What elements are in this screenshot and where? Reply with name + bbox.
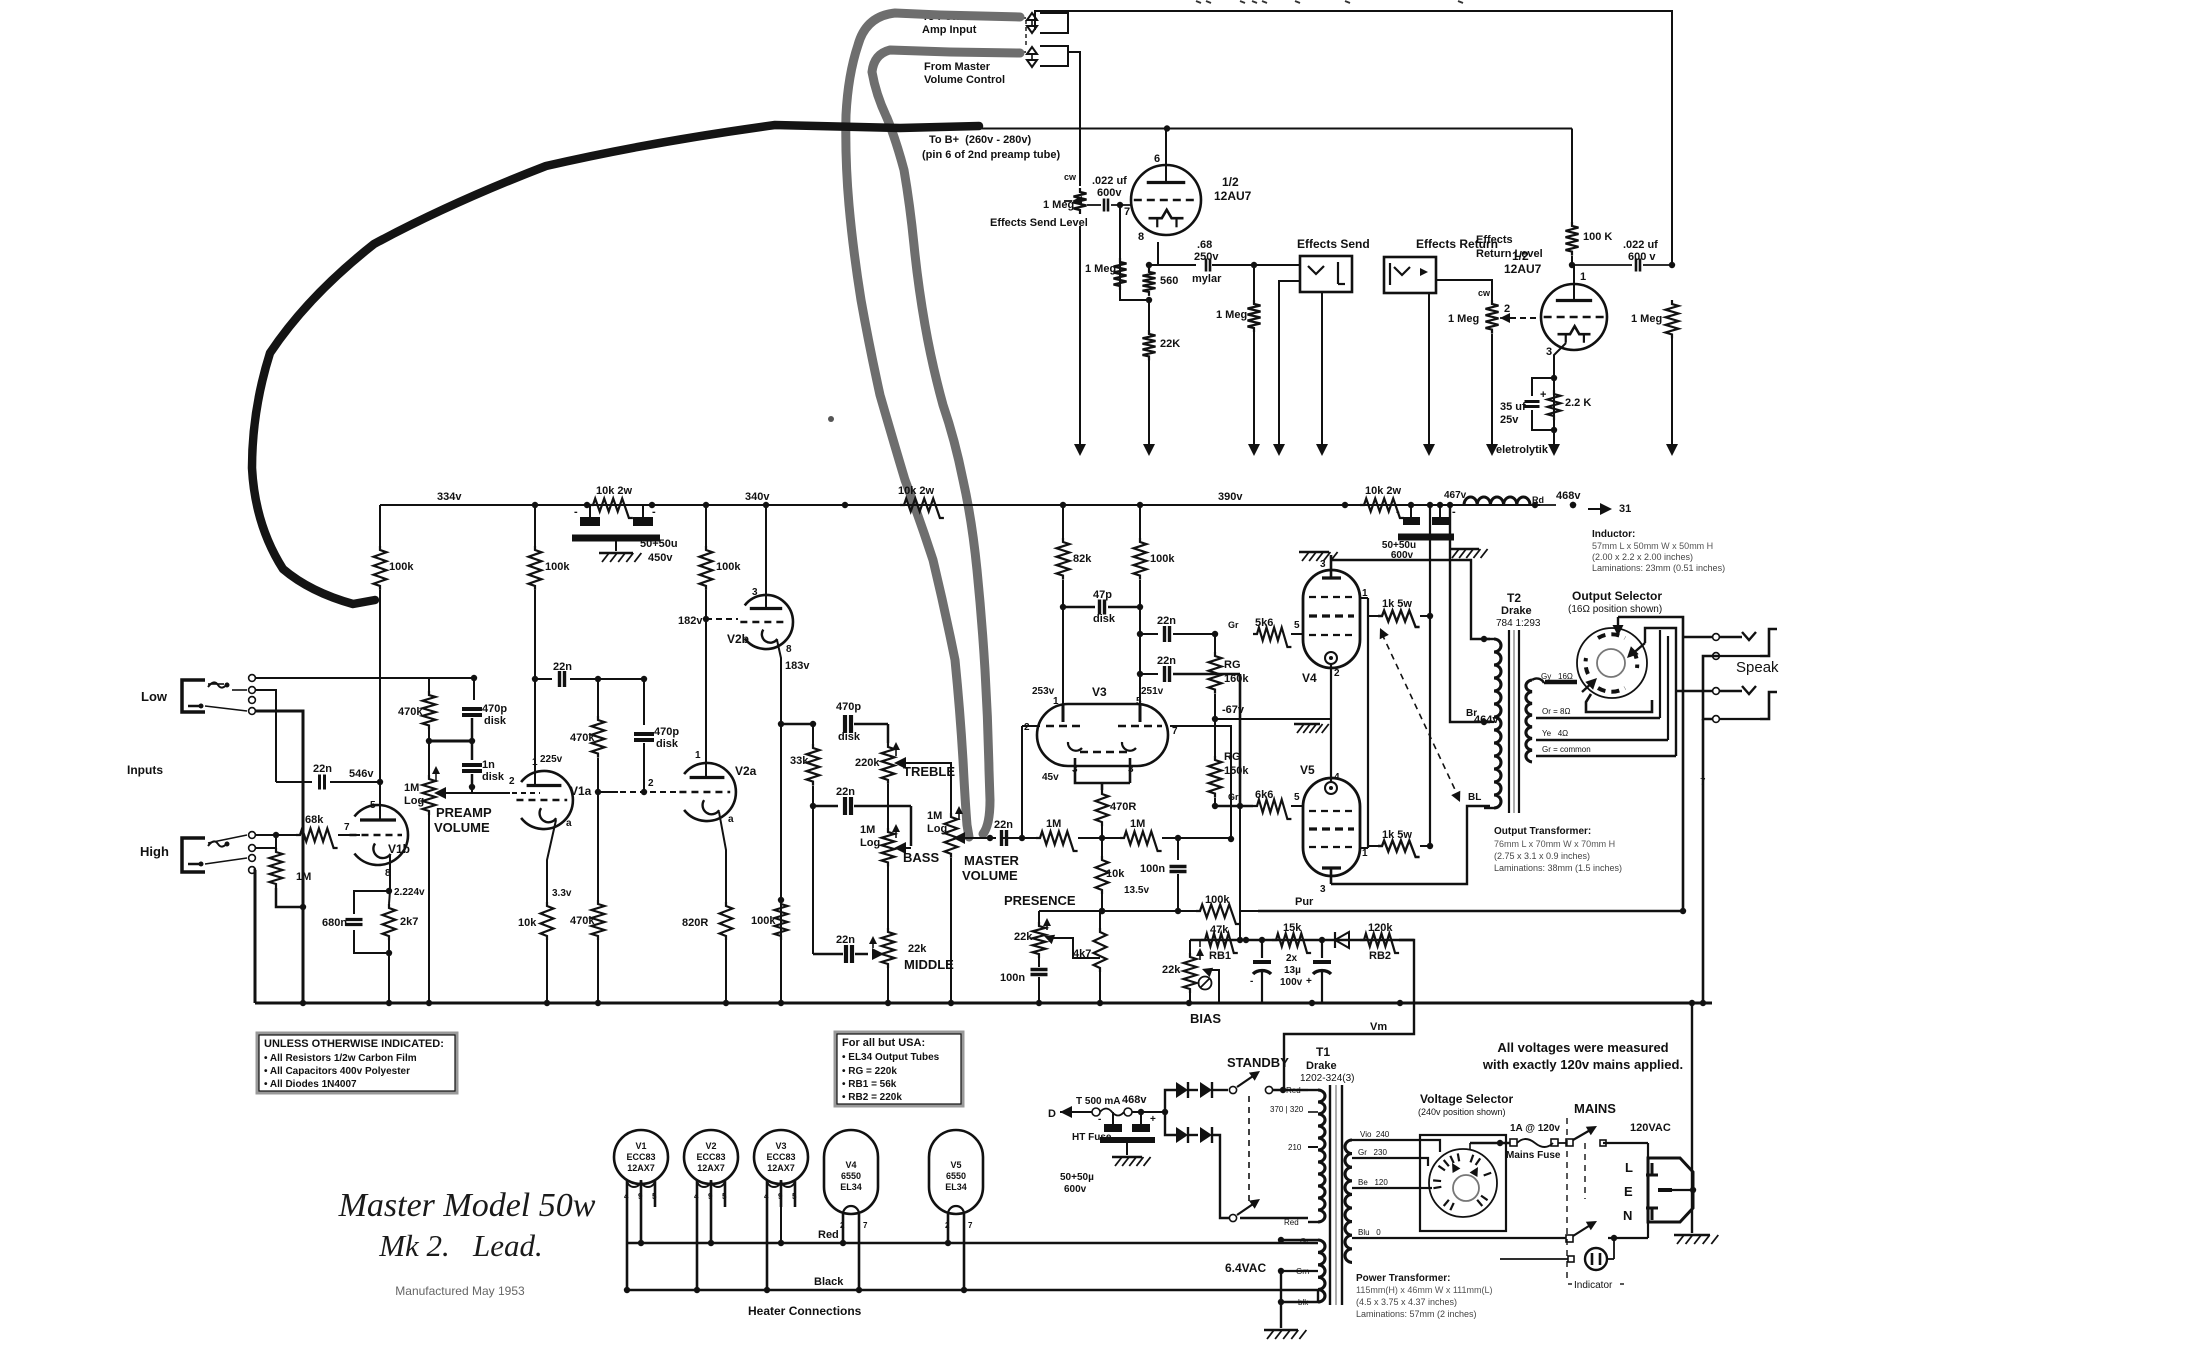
svg-text:.022 uf: .022 uf [1092,175,1127,187]
svg-text:4: 4 [694,1192,699,1201]
switch mains neutral [1530,1221,1648,1242]
wire V3 grid-b [1170,726,1234,842]
svg-text:4: 4 [1334,772,1340,783]
wire B+ rail 334v-467v [380,502,1576,508]
svg-text:T 500 mA: T 500 mA [1076,1096,1120,1107]
svg-text:(16Ω position shown): (16Ω position shown) [1568,604,1662,615]
svg-text:7: 7 [863,1221,868,1230]
resistor 100k tail [751,897,788,940]
svg-text:Laminations: 23mm (0.51 inches: Laminations: 23mm (0.51 inches) [1592,563,1725,573]
svg-text:RG: RG [1224,659,1241,671]
svg-text:Speak: Speak [1736,659,1779,676]
svg-text:a: a [566,818,572,829]
svg-text:PRESENCE: PRESENCE [1004,893,1076,908]
svg-text:1M: 1M [927,810,942,822]
svg-text:2: 2 [1024,722,1030,733]
svg-text:100v: 100v [1280,977,1303,988]
resistor 6k6 grid stopper V5 [1228,620,1303,819]
svg-text:120VAC: 120VAC [1630,1122,1671,1134]
capacitor 22n middle [813,806,884,963]
svg-text:Red: Red [1286,1086,1301,1095]
svg-text:13.5v: 13.5v [1124,885,1149,896]
capacitor 47p disk [1063,589,1140,625]
svg-text:V1a: V1a [570,784,592,798]
svg-text:10k 2w: 10k 2w [898,485,935,497]
svg-text:47p: 47p [1093,589,1112,601]
wire selector taps [1378,1140,1530,1238]
jack J-send (to power amp input) [981,13,1068,33]
svg-text:• All Resistors 1/2w Carbon Fi: • All Resistors 1/2w Carbon Film [264,1053,417,1064]
transformer T1 HT winding [1270,1086,1325,1227]
diode bias [1335,932,1360,948]
svg-text:Master Model 50w: Master Model 50w [338,1187,596,1224]
wire bias feed vertical [1237,806,1243,943]
svg-text:3: 3 [1546,346,1552,358]
choke inductor [1444,490,1631,515]
capacitor 100n PI [1124,838,1187,911]
label 120VAC [1630,1122,1671,1134]
label MAINS [1574,1101,1616,1116]
capacitor 470p disk (bright) [429,675,507,744]
tube basing V3 ECC83 [754,1130,808,1293]
pot MASTER VOLUME 1M Log [927,806,1020,1003]
svg-text:Laminations: 38mm (1.5 inches): Laminations: 38mm (1.5 inches) [1494,863,1622,873]
wire heater CT to ground [1264,1271,1306,1339]
svg-text:RG: RG [1224,751,1241,763]
svg-text:Be 120: Be 120 [1358,1178,1388,1187]
resistor 5k6 grid stopper V4 [1253,617,1303,647]
svg-text:470p: 470p [482,703,507,715]
pot BIAS 22k [1162,940,1221,1026]
svg-text:Gr = common: Gr = common [1542,745,1591,754]
svg-text:12AX7: 12AX7 [767,1163,795,1173]
label From Master Volume Control [924,61,1005,86]
wire grid divider 1 Meg [1085,205,1152,303]
output transformer spec text [1494,826,1622,873]
stray dot [828,416,834,422]
svg-text:22n: 22n [313,763,332,775]
fuse HT T500mA [1072,1094,1168,1143]
pot Effects Return Level 1 Meg [1448,288,1510,456]
resistor 1 Meg (output) [1631,300,1679,456]
svg-text:10k: 10k [1106,868,1125,880]
transformer T1 mains winding [1345,1130,1440,1262]
pot PRESENCE 22k [1014,911,1100,958]
svg-text:1 Meg: 1 Meg [1448,313,1479,325]
svg-text:468v: 468v [1122,1094,1147,1106]
svg-text:VOLUME: VOLUME [434,820,490,835]
svg-text:Inductor:: Inductor: [1592,529,1635,540]
svg-text:5k6: 5k6 [1255,617,1273,629]
svg-text:10k 2w: 10k 2w [596,485,633,497]
svg-text:470p: 470p [654,726,679,738]
wire U1b cathode [1551,343,1566,433]
svg-text:50+50u: 50+50u [640,538,678,550]
transformer T1 core [1330,1085,1342,1305]
svg-text:V3: V3 [775,1141,786,1151]
svg-text:• All Capacitors 400v Polyeste: • All Capacitors 400v Polyester [264,1066,410,1077]
svg-text:Inputs: Inputs [127,763,163,777]
svg-text:ECC83: ECC83 [766,1152,795,1162]
svg-text:BIAS: BIAS [1190,1011,1221,1026]
svg-text:-: - [1250,976,1253,987]
svg-text:22K: 22K [1160,338,1180,350]
svg-text:1202-324(3): 1202-324(3) [1300,1073,1354,1084]
svg-text:Indicator: Indicator [1574,1280,1613,1291]
resistor 470R [1096,790,1137,841]
svg-text:disk: disk [838,731,861,743]
svg-text:Gy: Gy [1541,672,1551,681]
svg-text:5: 5 [722,1192,727,1201]
svg-text:2x: 2x [1286,953,1298,964]
wire low to 22n [256,690,276,782]
svg-text:2: 2 [1504,303,1510,315]
svg-text:470p: 470p [836,701,861,713]
svg-text:47k: 47k [1210,924,1229,936]
transformer T1 heater winding [1278,1237,1325,1307]
svg-text:PREAMP: PREAMP [436,805,492,820]
svg-text:L: L [1625,1160,1633,1175]
svg-text:9: 9 [638,1192,643,1201]
tube U1a half 12AU7 (effects send driver) [1131,129,1252,244]
wire V2b cathode to tone stack [777,640,810,1003]
resistor 1M PI bias 1 [1022,818,1102,851]
svg-text:T2: T2 [1507,591,1521,605]
svg-text:Gr: Gr [1228,792,1239,802]
svg-text:5: 5 [792,1192,797,1201]
svg-text:Vm: Vm [1370,1021,1387,1033]
svg-text:V2b: V2b [727,632,749,646]
neon indicator [1500,1240,1624,1291]
svg-text:• RB1 = 56k: • RB1 = 56k [842,1079,897,1090]
resistor 100k V1a plate [529,505,571,787]
power transformer spec text [1356,1273,1493,1319]
transformer T1 label [1300,1045,1354,1084]
svg-text:100k: 100k [545,561,570,573]
svg-text:600v: 600v [1097,187,1122,199]
capacitor 22n to V4 [1140,615,1218,642]
capacitor 1n disk [462,741,505,790]
label Voltage Selector [1418,1092,1513,1117]
capacitor 13u 100v a [1250,940,1271,1003]
label Output Selector [1568,589,1662,615]
speaker jack 1 [1720,629,1777,656]
svg-text:13µ: 13µ [1284,965,1301,976]
svg-text:10k 2w: 10k 2w [1365,485,1402,497]
wire jack to effects send level pot [1068,52,1080,186]
svg-text:V5: V5 [950,1160,961,1170]
fuse mains 1A [1506,1123,1561,1161]
svg-text:.022 uf: .022 uf [1623,239,1658,251]
svg-text:MIDDLE: MIDDLE [904,957,954,972]
svg-text:(pin 6 of 2nd preamp tube): (pin 6 of 2nd preamp tube) [922,149,1060,161]
svg-text:470k: 470k [570,915,595,927]
resistor 470k mixer [398,678,436,744]
svg-text:RB1: RB1 [1209,950,1231,962]
svg-text:1A @ 120v: 1A @ 120v [1510,1123,1560,1134]
tube basing V1 ECC83 [614,1130,668,1293]
svg-text:Log: Log [404,795,424,807]
transformer T2 label [1496,591,1541,629]
svg-text:680n: 680n [322,917,347,929]
label 334v [437,491,462,503]
svg-text:To B+ (260v - 280v): To B+ (260v - 280v) [929,134,1032,146]
wire V5 plate to OT [1331,792,1490,884]
svg-text:ECC83: ECC83 [696,1152,725,1162]
svg-text:182v: 182v [678,615,703,627]
svg-text:Laminations: 57mm (2 inches): Laminations: 57mm (2 inches) [1356,1309,1477,1319]
svg-text:T1: T1 [1316,1045,1330,1059]
capacitor 470p disk coupling [634,679,679,795]
svg-text:22n: 22n [1157,615,1176,627]
jack High contacts [205,832,255,874]
svg-text:820R: 820R [682,917,708,929]
svg-text:31: 31 [1619,503,1631,515]
svg-text:MAINS: MAINS [1574,1101,1616,1116]
svg-text:D: D [1048,1108,1056,1120]
svg-text:Log: Log [927,823,947,835]
svg-text:6550: 6550 [841,1171,861,1181]
svg-text:.68: .68 [1197,239,1212,251]
svg-text:15k: 15k [1283,922,1302,934]
hand-drawn gray wire A (to power amp input) [846,13,1020,837]
svg-text:8: 8 [1138,231,1144,243]
label To B+ [922,134,1060,161]
jack Low contacts [205,675,255,715]
svg-text:1: 1 [695,750,701,761]
dashed link between jacks [1025,20,1027,48]
jack Low input [182,680,230,712]
svg-text:E: E [1624,1184,1633,1199]
selector wiring loop [1586,617,1683,911]
svg-text:4k7: 4k7 [1073,948,1091,960]
svg-text:a: a [728,814,734,825]
svg-text:Pur: Pur [1295,896,1314,908]
svg-text:1 Meg: 1 Meg [1085,263,1116,275]
V1b cathode network 2k7 680n [322,855,425,1003]
rectifier diodes upper [1165,1082,1228,1112]
wire B+ to OT center [1447,502,1490,725]
resistor 2.2 K cathode [1548,390,1592,456]
svg-text:1: 1 [532,757,538,768]
svg-text:V2a: V2a [735,764,757,778]
svg-text:EL34: EL34 [945,1182,967,1192]
svg-text:V4: V4 [1302,671,1317,685]
capacitor 470p disk treble [781,701,888,743]
svg-text:+: + [1306,976,1312,987]
svg-text:4: 4 [764,1192,769,1201]
speaker common column [1689,653,1720,1007]
pot PREAMP VOLUME 1M Log [404,741,540,1003]
svg-text:1M: 1M [1046,818,1061,830]
svg-text:100k: 100k [1205,894,1230,906]
svg-text:100n: 100n [1140,863,1165,875]
capacitor 100r presence [1000,958,1048,1003]
capacitor 50+50u 600v filter [1382,505,1488,561]
svg-text:220k: 220k [855,757,880,769]
svg-text:Log: Log [860,837,880,849]
wire V3 grid-a [1022,726,1040,838]
svg-text:ECC83: ECC83 [626,1152,655,1162]
svg-text:2.224v: 2.224v [394,887,425,898]
svg-text:100k: 100k [751,915,776,927]
wire V4 plate to OT [1331,560,1490,642]
pot BASS 1M Log [860,784,939,866]
resistor 1M input load [270,832,312,910]
svg-text:Manufactured May 1953: Manufactured May 1953 [395,1284,525,1298]
svg-text:TREBLE: TREBLE [903,764,955,779]
svg-text:Mk 2. Lead.: Mk 2. Lead. [378,1228,543,1263]
svg-text:6.4VAC: 6.4VAC [1225,1261,1266,1275]
svg-text:MASTER: MASTER [964,853,1020,868]
svg-text:600 v: 600 v [1628,251,1656,263]
subtitle manufactured [395,1284,525,1298]
tube basing V4 6550 [824,1130,878,1293]
svg-text:• RB2 = 220k: • RB2 = 220k [842,1092,902,1103]
svg-text:784 1:293: 784 1:293 [1496,618,1541,629]
svg-text:100k: 100k [1150,553,1175,565]
transformer T2 secondary [1526,678,1544,761]
svg-text:120k: 120k [1368,922,1393,934]
svg-text:546v: 546v [349,768,374,780]
label Speaker [1736,659,1779,676]
resistor 470k grid-leak lower [570,792,605,1003]
transformer T2 primary [1484,639,1501,808]
tube basing V2 ECC83 [684,1130,738,1293]
svg-text:100n: 100n [1000,972,1025,984]
svg-text:For all but USA:: For all but USA: [842,1037,925,1049]
svg-text:10k: 10k [518,917,537,929]
svg-text:Gr: Gr [1300,1237,1309,1246]
wire bias row [1190,937,1414,943]
resistor 100 K plate [1566,129,1613,269]
svg-text:V1: V1 [635,1141,646,1151]
svg-text:9: 9 [708,1192,713,1201]
svg-text:12AX7: 12AX7 [627,1163,655,1173]
svg-text:mylar: mylar [1192,273,1222,285]
wire lower grid row [1215,803,1253,809]
transformer T2 core [1509,630,1519,813]
svg-text:Effects: Effects [1476,234,1513,246]
speaker jack 2 [1720,686,1777,719]
svg-text:3: 3 [1320,884,1326,895]
svg-text:1 Meg: 1 Meg [1043,199,1074,211]
label PRESENCE [1004,893,1076,908]
capacitor 22n 546v (V1b plate blocking) [276,763,383,790]
svg-text:1k 5w: 1k 5w [1382,829,1412,841]
label To Power Amp Input [922,11,977,36]
svg-text:334v: 334v [437,491,462,503]
svg-text:Drake: Drake [1501,605,1532,617]
svg-text:eletrolytik: eletrolytik [1496,444,1549,456]
svg-text:1/2: 1/2 [1222,175,1239,189]
title Master Model 50w [338,1187,596,1263]
connector IEC inlet [1623,1143,1693,1238]
label STANDBY [1227,1055,1289,1070]
svg-text:251v: 251v [1141,686,1164,697]
wire main ground rail [255,1000,1712,1006]
svg-text:2: 2 [509,776,515,787]
pot TREBLE 220k [855,742,955,813]
capacitor .022uf 600v (send) [1087,175,1131,218]
svg-text:100 K: 100 K [1583,231,1612,243]
svg-text:3.3v: 3.3v [552,888,572,899]
resistor 10k 2w (second dropper) [898,485,944,518]
svg-text:2: 2 [648,778,654,789]
svg-text:76mm L x 70mm W x 70mm H: 76mm L x 70mm W x 70mm H [1494,839,1615,849]
svg-text:390v: 390v [1218,491,1243,503]
svg-text:22n: 22n [1157,655,1176,667]
wire return jack to pot [1436,280,1492,300]
wire to speaker tip 1 [1683,634,1719,641]
svg-text:Gr: Gr [1228,620,1239,630]
svg-text:35 uf: 35 uf [1500,401,1526,413]
capacitor 22n to V5 [1140,655,1240,682]
svg-text:33k: 33k [790,755,809,767]
svg-text:8: 8 [786,644,792,655]
svg-text:600v: 600v [1064,1184,1087,1195]
label Effects Return Level [1476,234,1543,260]
tube basing V5 6550 [929,1130,983,1293]
svg-text:Output Transformer:: Output Transformer: [1494,826,1591,837]
svg-text:467v: 467v [1444,490,1467,501]
svg-text:cw: cw [1064,172,1077,182]
jack High input [182,838,230,872]
tube V1a triode [516,754,591,829]
resistor RG 160k [1209,652,1250,756]
jack Effects Send [1273,237,1370,456]
svg-text:Return Level: Return Level [1476,248,1543,260]
svg-text:3: 3 [752,587,758,598]
svg-text:-: - [1452,506,1456,518]
dashed gang link standby [1248,1096,1250,1205]
svg-text:BL: BL [1468,792,1481,803]
svg-text:183v: 183v [785,660,810,672]
capacitor 22n master out [959,819,1025,846]
resistor 1 Meg (send jack shunt) [1216,265,1261,456]
svg-text:253v: 253v [1032,686,1055,697]
svg-text:Vio 240: Vio 240 [1360,1130,1390,1139]
svg-text:• All Diodes 1N4007: • All Diodes 1N4007 [264,1079,357,1090]
svg-text:Br: Br [1466,708,1477,719]
ground hatch near filter [1299,552,1338,561]
svg-text:Low: Low [141,689,168,704]
jack J-return (from master volume) [980,46,1068,67]
wire screen supply [1427,502,1433,846]
svg-text:Gr 230: Gr 230 [1358,1148,1387,1157]
svg-text:22n: 22n [553,661,572,673]
resistor 10k PI tail [1096,838,1126,914]
svg-text:22n: 22n [836,934,855,946]
cropped page-title fragments [1196,1,1463,3]
capacitor 22n interstage [535,661,647,687]
svg-text:5: 5 [652,1192,657,1201]
svg-text:STANDBY: STANDBY [1227,1055,1289,1070]
svg-text:V1b: V1b [388,842,410,856]
svg-text:5: 5 [370,800,376,811]
svg-text:57mm L x 50mm W x 50mm H: 57mm L x 50mm W x 50mm H [1592,541,1713,551]
svg-text:470R: 470R [1110,801,1136,813]
switch standby lower [1229,1199,1308,1222]
svg-text:UNLESS OTHERWISE INDICATED:: UNLESS OTHERWISE INDICATED: [264,1038,444,1050]
resistor 100k V2a plate [700,505,742,779]
label Inputs [127,763,163,777]
svg-text:V5: V5 [1300,763,1315,777]
svg-text:470k: 470k [398,706,423,718]
svg-text:7: 7 [1124,206,1130,218]
capacitor 22n bass [813,786,911,846]
tube U1b half 12AU7 (return amp) [1504,249,1607,358]
